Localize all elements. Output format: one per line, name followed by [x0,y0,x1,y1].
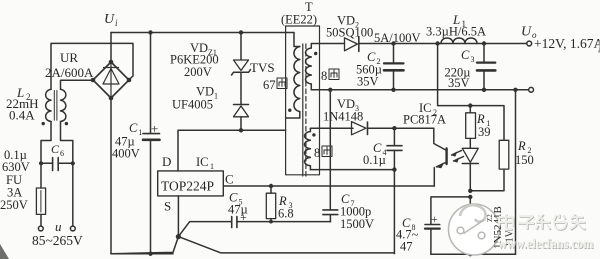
diode VD1 UF4005 [234,104,249,106]
node junction TVS top [239,30,243,34]
wire bridge bottom to ground rail [110,98,112,254]
capacitor C6 [41,162,73,164]
node junction zener bottom [468,252,472,256]
svg-text:C: C [225,172,234,187]
svg-text:6: 6 [60,149,64,158]
label u 85~265V [32,219,83,248]
node junction C2 top [391,41,395,45]
svg-text:35V: 35V [448,76,470,90]
svg-text:8: 8 [314,146,320,160]
inductor L1 [441,38,477,43]
terminal input right [70,226,75,231]
wire bias return line [310,169,394,171]
svg-text:3.3µH/6.5A: 3.3µH/6.5A [426,25,486,39]
node junction R3 bottom [269,220,273,224]
wire S pin down [177,196,179,237]
phototransistor emitter [434,162,446,186]
wire bias return down to primary ground [393,170,395,254]
svg-text:VD: VD [196,85,214,99]
wire AC line to left vertex [61,80,94,89]
fuse FU [40,163,42,188]
transformer feedback winding 8 turns [305,132,311,166]
node junction right edge top [513,88,517,92]
svg-text:6.8: 6.8 [278,207,294,221]
wire feedback bottom lead [309,166,311,170]
watermark text [499,214,586,230]
wire to C8 [431,197,470,224]
resistor R3 [270,186,272,193]
svg-text:1500V: 1500V [340,217,374,231]
capacitor C7 [323,210,338,215]
wire +12V rail [359,43,527,45]
capacitor C1 [150,33,152,134]
svg-text:2A/600A: 2A/600A [45,65,94,80]
svg-text:1: 1 [214,92,218,101]
svg-text:PC817A: PC817A [403,113,446,127]
node junction L1 left / feedback tap [435,41,439,45]
svg-text:R: R [476,112,485,126]
svg-text:C: C [129,121,138,135]
bridge rectifier UR [93,62,129,98]
svg-text:TOP224P: TOP224P [161,179,214,194]
svg-text:U: U [104,12,115,27]
wire primary bottom lead [286,112,300,119]
wire secondary bottom lead to 0V rail [310,84,312,90]
svg-text:1N4148: 1N4148 [323,110,363,124]
value labels 0.1u 630V [2,148,30,174]
svg-text:TVS: TVS [250,60,275,75]
node secondary polarity dot [314,52,317,55]
svg-text:250V: 250V [0,198,28,212]
svg-text:www.elecfans.com: www.elecfans.com [498,236,594,251]
phototransistor bar [445,149,447,165]
node junction C8 line [468,195,472,199]
inductor L2 common-mode choke [46,89,66,121]
node junction C4 bottom / bias return [392,167,396,171]
resistor R2 [499,140,509,169]
node junction C4 top [392,126,396,130]
label 67 turns [263,78,276,92]
wire L1-left feedback tap down [438,44,504,141]
wire blob to left ground rail [111,237,178,254]
wire top rail Ui [111,32,294,34]
node S blob [176,234,181,239]
node junction VD1 to drain wire [239,128,243,132]
wire AC line over bridge (left input to right vertex) [51,43,133,89]
svg-text:39: 39 [478,125,491,139]
light arrows [452,151,464,162]
transformer core lines [302,44,304,176]
svg-text:67: 67 [263,78,276,92]
svg-text:UR: UR [60,50,78,65]
LED of optocoupler [462,148,478,162]
svg-text:200V: 200V [184,65,212,79]
svg-text:150: 150 [515,153,534,167]
wire right input lead down [72,163,74,226]
capacitor C5 [232,217,237,228]
node junction R1 top [468,103,472,107]
wire C pin to optocoupler emitter [223,185,434,187]
capacitor C3 [483,44,485,63]
svg-text:8: 8 [321,69,327,83]
svg-text:(EE22): (EE22) [281,13,317,27]
node junction C7 top [328,88,332,92]
resistor R1 [469,106,471,113]
svg-text:+12V, 1.67A: +12V, 1.67A [534,36,600,51]
node Ui label [104,12,118,28]
svg-text:50SQ100: 50SQ100 [326,26,373,40]
svg-text:630V: 630V [2,160,30,174]
node junction C3 bottom [482,88,486,92]
wire C5 line up to C7 [329,215,331,222]
svg-text:3: 3 [471,55,475,64]
label 8 turns feedback [314,146,320,160]
wire 0V rail [311,89,528,91]
wire L2 right lead down [61,122,73,164]
label 8 turns output [321,69,327,83]
svg-text:R: R [517,139,526,153]
svg-text:85~265V: 85~265V [32,233,83,248]
svg-text:UF4005: UF4005 [172,98,213,112]
svg-text:+: + [240,210,247,224]
phototransistor collector [434,128,447,150]
wire right edge 0V down [515,90,517,254]
svg-text:+: + [151,121,158,136]
svg-text:Z2: Z2 [486,214,494,222]
scan smudges [0,244,9,259]
svg-text:S: S [164,199,171,214]
diode VD2 50SQ100 [345,38,358,51]
svg-text:+: + [431,212,438,226]
label 1N5241B vertical [486,206,516,249]
terminal output +12V [527,41,532,46]
wire bridge top to rail [110,33,112,63]
capacitor C4 [393,128,395,145]
svg-text:1: 1 [210,162,214,171]
svg-text:47: 47 [400,240,413,254]
transformer secondary output winding 8 turns [306,48,312,84]
wire blob diagonal to C5 line [178,222,231,237]
wire L2 left lead down [41,122,51,164]
IC1 TOP224P box [158,171,224,196]
terminal output 0V [529,87,534,92]
svg-text:C: C [461,48,470,62]
svg-text:1: 1 [139,128,143,137]
zener diode VDZ2 1N5241B [469,197,471,215]
capacitor C2 [393,44,395,64]
diode VD3 1N4148 [310,127,353,129]
wire rail into primary top [294,33,300,47]
node primary polarity dot [288,109,291,112]
transformer T EE22 outline [286,26,320,175]
wire blob diagonal to right ground rail [178,237,394,253]
watermark logo circle [449,204,500,255]
wire secondary feedback ground rail [431,253,516,255]
wire secondary top lead to VD2 [311,44,344,49]
svg-text:0.1µ: 0.1µ [363,153,386,167]
svg-text:u: u [55,219,62,234]
wire feedback top lead [309,128,311,131]
svg-text:400V: 400V [112,147,140,161]
svg-text:35V: 35V [357,75,379,89]
node junction C1 top [148,30,152,34]
node junction LED bottom [468,189,472,193]
svg-text:0.4A: 0.4A [9,108,35,123]
transformer primary winding 67 turns [294,47,300,112]
node feedback polarity dot [312,133,315,136]
wire drain line [178,130,286,171]
node junction R3 top [269,184,273,188]
svg-text:U: U [521,25,532,40]
wire ground rail left piece [111,253,173,255]
optocoupler IC2 PC817A [403,101,446,127]
svg-text:C: C [51,142,60,156]
node junction C1 bottom [148,252,152,256]
node junction C2 bottom [391,88,395,92]
capacitor C8 [425,224,440,226]
svg-text:D: D [162,154,171,169]
node junction C3 top [482,41,486,45]
svg-text:IC: IC [196,155,209,169]
TVS diode VDZ1 P6KE200 [240,33,242,60]
terminal input left [38,226,43,231]
